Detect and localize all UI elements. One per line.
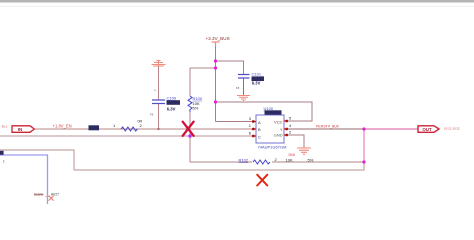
wire C101 to ground — [243, 79, 245, 96]
power tap symbol above C100 — [152, 61, 166, 67]
resistor R102 — [253, 160, 270, 164]
svg-text:6.3V: 6.3V — [252, 81, 261, 86]
X error marker 2 — [257, 175, 267, 186]
svg-text:10K: 10K — [286, 157, 293, 162]
net label stub at left edge — [0, 151, 4, 155]
svg-text:+1.8V_EN: +1.8V_EN — [53, 124, 72, 129]
wire vertical x=364 (highlighted) — [363, 129, 365, 162]
wire to pin A — [216, 121, 253, 123]
no-connect pin bottom-left — [46, 196, 51, 198]
svg-text:+: + — [154, 89, 156, 93]
wire net C y=136 — [0, 135, 252, 137]
wire y=61 to C101 — [216, 61, 244, 74]
svg-text:6.3V: 6.3V — [167, 106, 176, 111]
svg-text:3: 3 — [249, 116, 252, 121]
resistor R100 — [188, 96, 192, 112]
wire C100 branch vertical x=158.5 — [158, 66, 160, 129]
small X no-connect marker — [49, 196, 54, 201]
junction at 190,136 — [188, 134, 192, 138]
svg-text:AV27: AV27 — [51, 193, 59, 197]
svg-text:4: 4 — [289, 123, 292, 128]
svg-text:5: 5 — [289, 115, 292, 120]
junction at 215.5,68 — [214, 66, 217, 69]
wire bus y=102 to VCC — [216, 102, 313, 121]
wire y=68 to bus — [190, 67, 216, 69]
svg-text:1: 1 — [3, 160, 5, 164]
svg-text:OUT: OUT — [422, 127, 432, 132]
svg-text:+3.3V_BUS: +3.3V_BUS — [206, 36, 230, 41]
ground for C101 — [237, 96, 250, 101]
svg-text:GND: GND — [274, 132, 283, 137]
svg-text:2: 2 — [289, 130, 292, 135]
top toolbar edge — [0, 0, 474, 3]
capacitor C101 — [238, 75, 250, 79]
svg-text:U100: U100 — [264, 106, 274, 111]
wire y=170 long horizontal — [74, 162, 364, 170]
svg-text:1: 1 — [249, 123, 252, 128]
wire vertical x=190 R100 branch — [189, 68, 191, 162]
junction at 364,162 — [362, 160, 365, 163]
svg-text:74AUP1G57GM: 74AUP1G57GM — [258, 145, 287, 150]
svg-text:5%: 5% — [193, 106, 199, 111]
svg-text:5%: 5% — [308, 157, 314, 162]
svg-text:A: A — [258, 120, 261, 125]
svg-text:0R: 0R — [138, 120, 143, 124]
wire blue L bottom-left — [0, 155, 48, 204]
svg-text:R102: R102 — [239, 157, 249, 162]
junction at 215.5,102 — [214, 100, 217, 103]
resistor R103 0R on EN line — [121, 127, 137, 131]
svg-text:6: 6 — [249, 130, 252, 135]
svg-text:C100: C100 — [167, 95, 177, 100]
svg-text:IN: IN — [18, 127, 22, 132]
svg-text:98,2: 98,2 — [2, 125, 8, 129]
svg-text:16,21,30,32: 16,21,30,32 — [444, 126, 460, 130]
junction at 215.5,61 — [214, 59, 217, 62]
svg-text:B: B — [258, 127, 261, 132]
port OUT — [418, 126, 460, 133]
junction at 158.5,129 — [157, 128, 159, 130]
svg-text:F6: F6 — [236, 86, 240, 90]
svg-text:1: 1 — [113, 123, 116, 128]
junction at 364,129 — [362, 127, 365, 130]
selected refdes blob on EN wire — [89, 125, 100, 130]
IC pin stubs — [252, 121, 288, 136]
svg-text:C: C — [258, 134, 261, 139]
power symbol +3.3V_BUS — [212, 42, 220, 46]
wire +1.8V_EN horizontal y=129 — [34, 128, 252, 130]
svg-text:2: 2 — [140, 123, 143, 128]
svg-text:F6: F6 — [150, 113, 154, 117]
big X error marker — [183, 122, 194, 136]
op IC U100 74AUP1G57GM — [256, 106, 286, 150]
IC pin numbers — [249, 115, 292, 135]
capacitor C100 — [152, 100, 165, 104]
wire +3.3V bus vertical x=215.5 — [215, 46, 217, 122]
wire OUT segment (highlighted) — [364, 128, 418, 130]
wire y=150 left with drop x=74 — [0, 150, 74, 170]
svg-text:2: 2 — [275, 157, 278, 162]
wire y=162 through R102 — [190, 161, 364, 163]
port IN — [2, 125, 35, 133]
svg-text:C101: C101 — [252, 72, 262, 77]
wire Y output to OUT — [288, 128, 364, 130]
svg-text:VCC: VCC — [274, 119, 283, 124]
ground for pin2 — [297, 148, 311, 154]
svg-text:MMMM: MMMM — [34, 192, 44, 196]
wire GND pin2 — [288, 135, 304, 148]
svg-text:PERST#_BUF: PERST#_BUF — [316, 124, 340, 128]
